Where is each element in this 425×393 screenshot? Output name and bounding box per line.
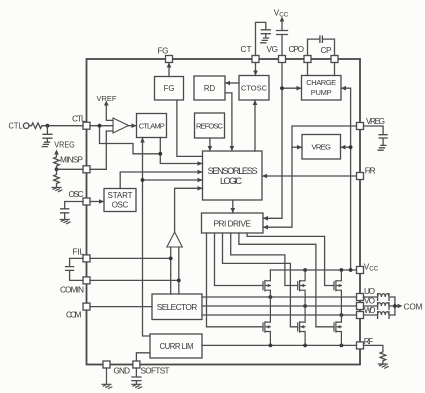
block SENSORLESS LOGIC bbox=[203, 151, 263, 200]
arrow CTLAMP B into SENSORLESS bbox=[198, 161, 203, 166]
block REFOSC bbox=[195, 113, 225, 138]
ground at C2 bbox=[60, 220, 70, 224]
wire CPO pin to CHARGE PUMP bbox=[307, 63, 309, 76]
node VG charge-pump junction bbox=[280, 86, 284, 90]
pin SOFTST bbox=[133, 361, 140, 368]
capacitor C3 FIL-COMIN bbox=[66, 258, 83, 280]
node CTL junction bbox=[98, 124, 102, 128]
arrow SENSORLESS into CTOSC bottom bbox=[253, 100, 258, 105]
node motor common bbox=[393, 304, 397, 308]
pin RF bbox=[357, 342, 364, 349]
wire SENSORLESS to CTOSC bbox=[254, 100, 256, 151]
wire node A branch to SENSORLESS bbox=[143, 179, 203, 181]
terminal CTL circle bbox=[23, 123, 29, 129]
arrow node A into SENSORLESS bbox=[198, 178, 203, 183]
pin COM bbox=[83, 303, 90, 310]
wire VCC branch to VREG block bbox=[341, 146, 351, 148]
arrow VCC into VREG block right bbox=[341, 145, 346, 150]
svg-text:VREG: VREG bbox=[311, 143, 331, 152]
block CHARGE PUMP bbox=[302, 76, 342, 101]
wire OSC pin to START OSC bbox=[90, 201, 104, 203]
wire SOFTST net to CURR LIM bbox=[136, 353, 150, 361]
ground at C5 (slash style) bbox=[261, 38, 269, 43]
svg-text:PUMP: PUMP bbox=[311, 88, 332, 97]
svg-text:PRI DRIVE: PRI DRIVE bbox=[213, 218, 251, 228]
node CTL external junction bbox=[46, 124, 50, 128]
block FG bbox=[155, 77, 184, 101]
wire VCC top rail bbox=[270, 269, 356, 271]
wire U2 output to SENSORLESS bbox=[175, 188, 203, 232]
transistor Q6 low-side W bbox=[334, 315, 341, 345]
wire motor common bbox=[395, 297, 398, 315]
pin F/R bbox=[357, 173, 364, 180]
capacitor C8 at VREG pin bbox=[364, 126, 388, 145]
ground at C8 (slash style) bbox=[378, 145, 386, 150]
svg-text:CTOSC: CTOSC bbox=[241, 83, 268, 92]
arrow to COM label bbox=[398, 304, 403, 309]
arrow FG output into pin bbox=[167, 63, 172, 68]
arrow U2 into SENSORLESS bbox=[198, 186, 203, 191]
wire COM net to SELECTOR bbox=[90, 306, 152, 308]
arrow U1 output into CTLAMP bbox=[132, 123, 137, 128]
svg-text:OSC: OSC bbox=[69, 190, 84, 199]
node rail Q2 drain bbox=[303, 268, 307, 272]
svg-text:START: START bbox=[108, 191, 133, 200]
pin VG bbox=[279, 56, 286, 63]
block CTOSC bbox=[239, 76, 269, 101]
svg-text:CT: CT bbox=[241, 45, 252, 54]
ground at C1 (slash style) bbox=[42, 142, 49, 146]
wire gate G5 low-side Q6 bbox=[239, 233, 334, 327]
svg-text:CTL: CTL bbox=[9, 121, 23, 130]
capacitor C6 VG to VCC bbox=[277, 21, 288, 56]
svg-text:FIL: FIL bbox=[73, 247, 85, 256]
node W phase bbox=[340, 313, 344, 317]
wire CTL pin to U1 bbox=[90, 125, 113, 127]
svg-text:VCC: VCC bbox=[274, 9, 289, 19]
node RF rail Q4 source bbox=[269, 344, 273, 348]
svg-text:RF: RF bbox=[364, 337, 374, 346]
arrow node A into CTLAMP bottom bbox=[140, 138, 145, 143]
block SELECTOR bbox=[152, 294, 202, 320]
svg-text:COM: COM bbox=[66, 311, 82, 320]
arrow VREG rail up bbox=[54, 150, 59, 155]
transistor Q2 high-side V bbox=[298, 270, 305, 306]
arrow CTOSC into RD bbox=[225, 81, 230, 86]
wire START OSC to SENSORLESS bbox=[120, 172, 202, 189]
wire CTLAMP pin A long vertical to CURR LIM bbox=[143, 138, 151, 337]
pin GND bbox=[103, 361, 110, 368]
block PRI DRIVE bbox=[202, 213, 264, 233]
wire CP pin to CHARGE PUMP bbox=[334, 63, 336, 76]
wire F/R net to SENSORLESS bbox=[262, 175, 357, 177]
wire U1 output to CTLAMP bbox=[129, 125, 137, 127]
wire CT pin to CTOSC bbox=[255, 63, 257, 76]
pin MINSP bbox=[83, 166, 90, 173]
svg-text:COM: COM bbox=[404, 303, 423, 312]
pin CT bbox=[252, 56, 259, 63]
svg-text:CTL: CTL bbox=[72, 115, 86, 124]
inductor L1 motor coil U bbox=[364, 294, 395, 301]
pin CPO bbox=[304, 56, 311, 63]
resistor R4 at RF bbox=[364, 345, 386, 364]
wire gate G6 high-side Q3 bbox=[247, 233, 334, 286]
wire MINSP to U1 lower input bbox=[90, 131, 113, 169]
svg-text:VCC: VCC bbox=[364, 263, 379, 273]
inductor L2 motor coil V bbox=[364, 303, 395, 310]
wire FG pin to FG block bbox=[168, 63, 170, 77]
ground at C4 bbox=[132, 384, 142, 388]
wire gate G4 high-side Q2 bbox=[231, 233, 298, 286]
wire RF rail from CURR LIM to RF pin bbox=[202, 344, 357, 346]
ground at R3 (bar style) bbox=[52, 188, 62, 192]
wire REFOSC to SENSORLESS bbox=[209, 138, 211, 151]
svg-text:LOGIC: LOGIC bbox=[220, 176, 242, 186]
pin COMIN bbox=[83, 277, 90, 284]
arrow VG into PRI DRIVE bbox=[263, 216, 268, 221]
svg-text:VG: VG bbox=[267, 45, 279, 54]
node rail Q3 drain bbox=[340, 268, 344, 272]
arrow START OSC into SENSORLESS bbox=[198, 170, 203, 175]
wire VREG branch into VREG block bbox=[292, 146, 302, 148]
arrow VCC rail up top bbox=[280, 17, 285, 22]
svg-text:F/R: F/R bbox=[365, 167, 376, 176]
op-amp U1 CTL buffer bbox=[113, 118, 129, 133]
wire VG branch to CHARGE PUMP bbox=[282, 87, 302, 89]
capacitor C5 at CT pin bbox=[256, 22, 271, 55]
wire CTOSC to RD bbox=[225, 82, 239, 84]
inductor L3 motor coil W bbox=[364, 312, 395, 319]
wire VREF arrow to U1 bbox=[106, 105, 113, 121]
ground at R4 bbox=[378, 364, 388, 368]
transistor Q1 high-side U bbox=[263, 270, 270, 297]
wire phase V net bbox=[202, 305, 357, 307]
svg-text:RD: RD bbox=[204, 84, 216, 93]
wire FG block output net to SENSORLESS bbox=[177, 100, 203, 156]
pin CTL bbox=[83, 122, 90, 129]
node VCC rail junction bbox=[349, 268, 353, 272]
capacitor C4 at SOFTST bbox=[132, 368, 141, 384]
pin UO bbox=[357, 294, 364, 301]
node COMIN junction bbox=[177, 279, 181, 283]
wire gate G1 low-side Q4 bbox=[207, 233, 264, 327]
svg-text:GND: GND bbox=[114, 367, 131, 376]
resistor R2 VREG-MINSP bbox=[54, 154, 60, 170]
svg-text:COMIN: COMIN bbox=[60, 285, 84, 294]
arrow VCC into CHARGE PUMP bbox=[341, 86, 346, 91]
wire VG net to PRI DRIVE bbox=[263, 63, 282, 219]
wire CTLAMP pin B to SENSORLESS bbox=[160, 138, 202, 164]
wire FIL net bbox=[90, 257, 171, 259]
svg-text:SELECTOR: SELECTOR bbox=[157, 302, 198, 312]
arrow VG into CHARGE PUMP bbox=[297, 86, 302, 91]
wire MINSP tap to pin bbox=[57, 168, 84, 170]
wire VREG pin net bbox=[263, 126, 357, 227]
svg-text:WO: WO bbox=[364, 306, 376, 315]
wire VCC internal rail up bbox=[341, 88, 351, 270]
capacitor C1 at CTL bbox=[43, 126, 52, 142]
IC outline bbox=[87, 59, 361, 365]
block VREG U3 bbox=[302, 135, 341, 160]
wire phase U net bbox=[202, 296, 357, 298]
wire U2 left input from SELECTOR bbox=[170, 247, 172, 294]
svg-text:VREG: VREG bbox=[366, 117, 385, 126]
block CURR LIM bbox=[150, 334, 202, 358]
svg-text:FG: FG bbox=[164, 84, 175, 93]
capacitor C2 at OSC bbox=[61, 202, 83, 220]
svg-text:VREG: VREG bbox=[54, 141, 75, 150]
node RF rail Q6 source bbox=[340, 344, 344, 348]
svg-text:CPO: CPO bbox=[289, 45, 305, 54]
svg-text:REFOSC: REFOSC bbox=[196, 121, 224, 130]
svg-text:CTLAMP: CTLAMP bbox=[139, 121, 165, 130]
block START OSC bbox=[104, 189, 136, 212]
wire CTL net staircase to CTLAMP bottom node bbox=[100, 126, 161, 154]
node CTLAMP B junction bbox=[158, 152, 162, 156]
arrow VREF up bbox=[104, 101, 109, 106]
node RF rail Q5 source bbox=[303, 344, 307, 348]
wire COMIN net bbox=[90, 279, 179, 281]
ground at GND pin bbox=[102, 368, 112, 389]
pin OSC bbox=[83, 198, 90, 205]
node U phase bbox=[269, 295, 273, 299]
arrow REFOSC into SENSORLESS top bbox=[208, 146, 213, 151]
op-amp U2 position amp bbox=[167, 232, 182, 247]
wire gate G2 high-side Q1 bbox=[215, 233, 264, 286]
svg-text:UO: UO bbox=[364, 287, 375, 296]
pin CP bbox=[331, 56, 338, 63]
node A junction on CTLAMP vertical bbox=[141, 178, 145, 182]
svg-text:FG: FG bbox=[158, 47, 169, 56]
pin VO bbox=[357, 303, 364, 310]
transistor Q4 low-side U bbox=[263, 297, 270, 345]
block CTLAMP bbox=[137, 114, 167, 138]
arrow VREG into VREG block left bbox=[297, 145, 302, 150]
svg-text:MINSP: MINSP bbox=[60, 156, 84, 165]
wire phase W net bbox=[202, 314, 357, 316]
wire SENSORLESS to PRI DRIVE bbox=[232, 200, 234, 213]
svg-text:SOFTST: SOFTST bbox=[141, 367, 170, 376]
node V phase bbox=[303, 304, 307, 308]
arrow RD net into SENSORLESS top bbox=[230, 146, 235, 151]
pin VREG bbox=[357, 123, 364, 130]
svg-text:CP: CP bbox=[321, 46, 333, 55]
arrow OSC into START OSC bbox=[99, 199, 104, 204]
pin VCC bbox=[357, 267, 364, 274]
resistor R1 CTL series bbox=[29, 123, 83, 129]
arrow VREG into PRI DRIVE bbox=[263, 225, 268, 230]
node MINSP divider tap bbox=[55, 167, 59, 171]
node FIL junction bbox=[169, 257, 173, 261]
capacitor C7 CPO-CP bbox=[308, 36, 335, 56]
wire gate G3 low-side Q5 bbox=[223, 233, 298, 327]
pin WO bbox=[357, 312, 364, 319]
resistor R3 MINSP-GND bbox=[54, 169, 60, 187]
svg-text:OSC: OSC bbox=[112, 201, 129, 210]
wire RD output to SENSORLESS bbox=[225, 93, 232, 151]
arrow CT into CTOSC bbox=[253, 71, 258, 76]
pin FG bbox=[166, 56, 173, 63]
transistor Q5 low-side V bbox=[298, 306, 305, 345]
transistor Q3 high-side W bbox=[334, 270, 341, 315]
block RD bbox=[194, 76, 225, 100]
arrow F/R into SENSORLESS bbox=[262, 174, 267, 179]
wire U2 right input from SELECTOR bbox=[178, 247, 180, 294]
svg-text:VO: VO bbox=[364, 297, 375, 306]
svg-text:CURR LIM: CURR LIM bbox=[160, 342, 194, 351]
arrow SENSORLESS into PRI DRIVE bbox=[231, 208, 236, 213]
svg-text:SENSORLESS: SENSORLESS bbox=[208, 166, 258, 176]
svg-text:CHARGE: CHARGE bbox=[306, 78, 336, 87]
node VCC VREG junction bbox=[349, 145, 353, 149]
pin FIL bbox=[83, 255, 90, 262]
